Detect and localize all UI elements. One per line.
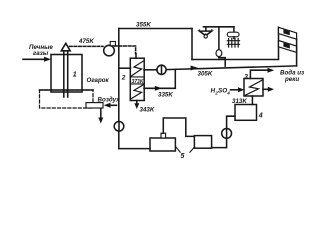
wire: stub into apparatus 2 top xyxy=(135,54,137,59)
apparatus 3 (acid cooler) xyxy=(244,79,263,97)
wire: main left vertical xyxy=(118,29,120,149)
node: zigzag in apparatus 3 xyxy=(245,80,263,95)
svg-text:313K: 313K xyxy=(232,98,247,105)
node: Pechnye gazy label xyxy=(29,44,53,57)
wire: crossover loop xyxy=(163,118,194,136)
wire: furnace gas inlet arrow xyxy=(23,58,45,60)
wire: right outlet arrow of apparatus 3 xyxy=(263,88,269,90)
svg-text:реки: реки xyxy=(284,76,299,83)
blower (gas compressor) circle xyxy=(104,45,115,56)
washing tower (funnel symbol) xyxy=(205,27,207,31)
valve circle bottom right xyxy=(222,129,232,139)
node: zigzag bottom cell xyxy=(131,85,143,99)
wire: bottom run to apparatus 5 xyxy=(119,148,150,150)
svg-text:газы: газы xyxy=(33,50,49,57)
node: chimney hollow arrow up xyxy=(61,43,70,51)
wire: vertical to drip trap xyxy=(218,27,220,50)
wire: line2 to apparatus 2 xyxy=(144,69,157,71)
wire: rail right leg down xyxy=(191,29,193,60)
valve circle on line2 xyxy=(157,65,166,74)
svg-text:3: 3 xyxy=(244,73,248,80)
wire: dashed duct blower to heat exchanger top xyxy=(115,46,136,54)
svg-text:475K: 475K xyxy=(78,38,94,45)
wire: line2 long 305K line xyxy=(166,66,297,70)
electrostatic precipitator flag 1 xyxy=(279,27,297,39)
svg-text:5: 5 xyxy=(181,153,185,160)
wire: precipitator right leg xyxy=(296,39,298,66)
svg-text:SO: SO xyxy=(218,87,227,94)
wire: water outlet top arrow xyxy=(250,70,268,78)
wire: apparatus 3 down to apparatus 4 xyxy=(251,96,253,105)
node: label 5 with pointers xyxy=(176,147,195,152)
node: drip trap oval xyxy=(216,50,222,57)
node: arrow on line2 xyxy=(191,66,199,71)
svg-text:Воздух: Воздух xyxy=(98,96,121,103)
wire: mini bus for tower symbols xyxy=(204,26,234,28)
wire: top rail 355K xyxy=(119,28,192,30)
wire: line1 to precipitator pole xyxy=(192,27,279,59)
apparatus 2 (heat exchanger stack) xyxy=(130,58,144,100)
drying tower (pill symbol) xyxy=(233,27,235,32)
apparatus 1 base (dashed bin) xyxy=(40,90,94,108)
wire: apparatus 2 right bottom branch xyxy=(144,70,175,88)
wire: apparatus 5 to valve xyxy=(212,138,227,147)
apparatus 1 (furnace) xyxy=(51,55,82,93)
wire: drip trap outlet jog xyxy=(219,57,225,66)
node: grid under pill xyxy=(233,37,235,39)
node: blower notch xyxy=(110,42,115,46)
svg-text:4: 4 xyxy=(258,113,263,120)
wire: down outlet arrow below heater xyxy=(100,108,102,118)
svg-text:373K: 373K xyxy=(132,79,144,85)
node: Voda iz reki label xyxy=(280,70,305,83)
electrostatic precipitator flag 2 xyxy=(279,41,297,53)
wire: H2SO4 inlet arrow xyxy=(231,89,240,91)
wire: dashed duct from chimney to blower xyxy=(70,45,104,47)
svg-text:343K: 343K xyxy=(140,106,155,113)
svg-text:305K: 305K xyxy=(198,70,213,77)
node: H2SO4 label xyxy=(211,87,231,95)
node: arrow on branch xyxy=(155,86,162,91)
wire: air inlet arrow xyxy=(109,104,117,106)
wire: 343K outlet down arrow xyxy=(136,101,138,105)
svg-text:2: 2 xyxy=(121,75,126,82)
apparatus 5 right chamber xyxy=(194,136,211,149)
svg-text:1: 1 xyxy=(73,72,77,79)
wire: branch into apparatus 2 left xyxy=(119,67,131,69)
apparatus 5 left chamber xyxy=(150,138,175,151)
svg-text:Огарок: Огарок xyxy=(87,77,110,84)
node: air heater small box xyxy=(86,103,103,108)
node: zigzag top cell xyxy=(131,61,143,76)
node: nub on top xyxy=(161,133,166,138)
svg-text:335K: 335K xyxy=(158,92,173,99)
wire: chimney pipe xyxy=(63,51,65,98)
apparatus 4 xyxy=(235,105,257,121)
svg-text:4: 4 xyxy=(226,90,230,95)
valve circle bottom left xyxy=(114,122,124,132)
wire: valve up to apparatus 4 xyxy=(227,116,235,128)
svg-text:355K: 355K xyxy=(136,21,151,28)
